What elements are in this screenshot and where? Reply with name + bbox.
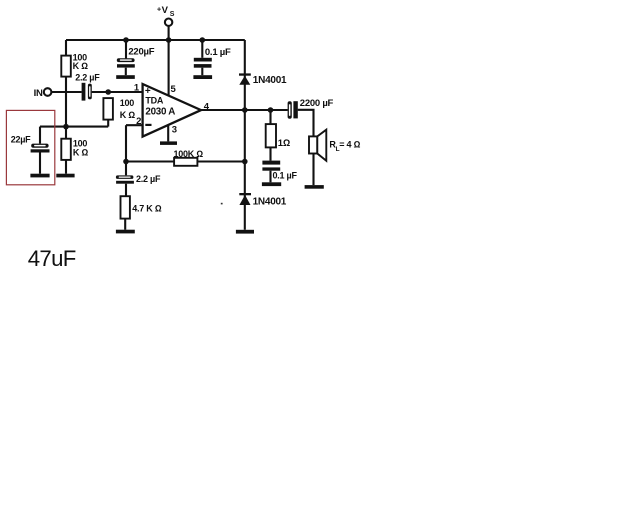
diode D2 1N4001 — [239, 193, 251, 195]
svg-text:0.1 µF: 0.1 µF — [273, 170, 298, 180]
wire IN to coupling cap — [51, 91, 81, 93]
wire 0.1uF to ground — [269, 171, 271, 183]
svg-text:5: 5 — [171, 84, 177, 95]
wire 2200uF to speaker corner — [298, 110, 314, 137]
ground 0.1uF top — [193, 75, 212, 79]
svg-text:47uF: 47uF — [28, 246, 76, 271]
svg-text:1Ω: 1Ω — [278, 138, 290, 149]
diode D1 1N4001 — [239, 73, 251, 75]
svg-text:3: 3 — [172, 124, 177, 135]
svg-text:IN: IN — [34, 88, 43, 99]
junction node dots — [63, 37, 273, 164]
capacitor 2.2uF input coupling — [82, 83, 86, 101]
ground speaker — [305, 185, 324, 189]
wire feedback right — [197, 160, 244, 162]
capacitor 0.1uF top — [194, 58, 212, 62]
wire 22uF cap to ground — [39, 153, 41, 174]
svg-text:V: V — [162, 5, 169, 16]
wire bias node horizontal — [40, 126, 108, 128]
svg-text:1N4001: 1N4001 — [253, 75, 287, 86]
resistor R 100K upper-left — [61, 56, 71, 77]
wire 1 ohm from output node — [269, 110, 271, 124]
svg-text:22µF: 22µF — [11, 134, 31, 144]
wire pin 3 — [167, 125, 169, 141]
red highlight box — [6, 110, 54, 184]
ground 22uF — [30, 174, 49, 178]
svg-text:K Ω: K Ω — [73, 148, 89, 158]
resistor 100K feedback — [174, 158, 197, 166]
svg-text:0.1 µF: 0.1 µF — [205, 47, 231, 58]
ground 100K lower-left — [56, 174, 74, 178]
ground 4.7K — [116, 230, 135, 234]
wire 4.7K to ground — [124, 219, 126, 230]
wire 2.2uF to 4.7K — [125, 184, 127, 197]
speaker RL — [309, 136, 317, 153]
svg-text:4.7 K Ω: 4.7 K Ω — [132, 204, 162, 214]
wire output — [201, 109, 288, 111]
wire pin 2 down to 2.2uF — [125, 125, 127, 175]
resistor 4.7K — [121, 196, 130, 218]
wire 22uF cap top — [39, 127, 41, 144]
svg-text:2.2 µF: 2.2 µF — [75, 73, 100, 83]
wire pin 2 — [126, 124, 143, 126]
resistor R 100K lower-left — [61, 139, 71, 160]
capacitor 220uF electrolytic — [117, 58, 135, 62]
svg-text:= 4 Ω: = 4 Ω — [339, 139, 360, 149]
svg-text:220µF: 220µF — [128, 47, 154, 58]
ground pin 3 — [160, 141, 177, 145]
resistor R 100K bias to pin1 — [103, 98, 113, 120]
wire 0.1uF to ground — [201, 68, 203, 76]
capacitor 22uF electrolytic — [31, 144, 48, 148]
wire lower 100K to ground — [65, 160, 67, 174]
terminal IN — [44, 88, 52, 96]
svg-text:2: 2 — [136, 116, 141, 127]
wire feedback left — [126, 160, 174, 162]
capacitor 2200uF output electrolytic — [288, 101, 292, 119]
ground 0.1uF output — [262, 182, 281, 186]
ground diode branch — [236, 230, 254, 234]
wire +Vs to pin 5 — [168, 26, 170, 96]
svg-text:1N4001: 1N4001 — [253, 196, 287, 207]
svg-text:TDA: TDA — [145, 96, 163, 106]
capacitor 2.2uF feedback — [116, 175, 133, 179]
op-amp U1 TDA2030A — [143, 84, 201, 137]
svg-text:100: 100 — [120, 98, 135, 108]
terminal +Vs — [165, 19, 172, 26]
svg-text:K Ω: K Ω — [120, 110, 136, 120]
capacitor 0.1uF output — [262, 161, 280, 165]
resistor 1 ohm — [266, 124, 276, 147]
svg-text:100K Ω: 100K Ω — [174, 149, 204, 159]
wire 1 ohm to 0.1uF — [269, 147, 271, 160]
ground 220uF — [116, 75, 135, 79]
svg-text:2200 µF: 2200 µF — [300, 98, 334, 109]
wire 220uF to ground — [125, 68, 127, 76]
wire right vertical diode branch — [244, 40, 246, 230]
wire speaker to ground — [312, 154, 314, 186]
wire top supply bus — [66, 39, 245, 41]
svg-text:2.2 µF: 2.2 µF — [136, 174, 161, 184]
svg-text:S: S — [170, 11, 175, 18]
svg-text:2030 A: 2030 A — [145, 107, 175, 118]
wire coupling cap to pin 1 — [92, 91, 143, 93]
svg-text:K Ω: K Ω — [73, 61, 89, 71]
wire 220uF from bus — [125, 40, 127, 58]
wire 0.1uF from bus — [201, 40, 203, 58]
wire left divider vertical — [65, 40, 67, 139]
stray speck — [221, 203, 223, 205]
wire bias resistor down — [107, 120, 109, 127]
